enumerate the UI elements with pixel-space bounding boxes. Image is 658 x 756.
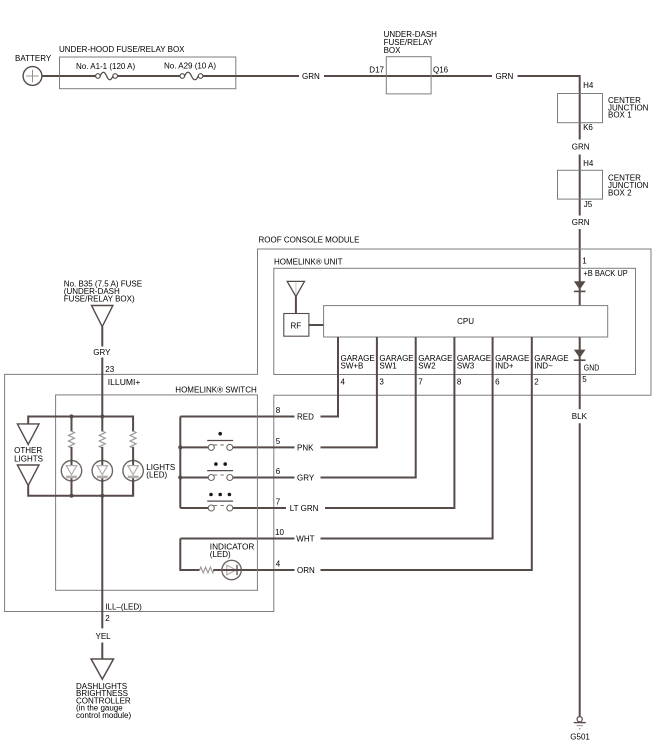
resistor R1 (lamp 1) xyxy=(69,431,75,448)
pushbutton switch S2 xyxy=(207,462,233,480)
svg-text:FUSE/RELAY BOX): FUSE/RELAY BOX) xyxy=(64,295,135,304)
top lamp bus wire xyxy=(28,417,133,432)
wire GRN between junction boxes xyxy=(572,143,590,216)
RF box xyxy=(284,314,309,337)
wire RF to CPU xyxy=(309,324,324,326)
svg-text:GRN: GRN xyxy=(572,143,590,152)
wire rail to switch S1 xyxy=(180,446,208,448)
wire RED (pin 4 to switch rail) xyxy=(180,337,338,422)
svg-text:5: 5 xyxy=(582,375,587,384)
pin 5 GND xyxy=(582,363,599,384)
pin H4 of center junction box 2 xyxy=(583,159,594,168)
pin 1 (+B BACK UP) xyxy=(582,257,628,279)
resistor R3 (lamp 3) xyxy=(130,431,136,448)
junction rail-GRY xyxy=(178,475,182,479)
pin 8 GARAGE SW3 xyxy=(457,354,491,387)
svg-text:GND: GND xyxy=(584,363,600,372)
dashlights brightness controller label xyxy=(76,682,131,720)
svg-text:8: 8 xyxy=(457,378,462,387)
wire battery to under-hood fuse/relay box xyxy=(42,75,61,77)
junction rail-PNK xyxy=(178,445,182,449)
svg-text:Q16: Q16 xyxy=(433,66,449,75)
diode D1 (+B back up) xyxy=(574,281,586,291)
switch rail wire xyxy=(179,417,181,509)
junction bus-ILLUMI xyxy=(100,414,104,418)
svg-text:(LED): (LED) xyxy=(210,550,231,559)
svg-text:GRY: GRY xyxy=(93,348,111,357)
svg-text:H4: H4 xyxy=(583,81,594,90)
svg-text:PNK: PNK xyxy=(297,443,314,452)
svg-text:BOX: BOX xyxy=(384,46,402,55)
svg-text:3: 3 xyxy=(379,378,384,387)
svg-text:+B BACK UP: +B BACK UP xyxy=(583,269,627,278)
other lights label xyxy=(14,446,43,463)
svg-text:HOMELINK® SWITCH: HOMELINK® SWITCH xyxy=(175,386,257,395)
svg-text:D17: D17 xyxy=(369,66,384,75)
svg-text:(LED): (LED) xyxy=(146,471,167,480)
svg-text:IND−: IND− xyxy=(534,362,553,371)
wire R3 to LED3 xyxy=(132,447,134,461)
svg-text:LIGHTS: LIGHTS xyxy=(14,454,43,463)
lights (LED) label xyxy=(146,463,175,480)
wire LT GRN (pin 8 to switch S3) xyxy=(233,337,454,513)
svg-text:J5: J5 xyxy=(584,200,593,209)
pin 4 GARAGE SW+B xyxy=(341,354,375,387)
wire PNK (pin 3 to switch S1) xyxy=(233,337,377,452)
wire inside under-hood box xyxy=(60,75,96,77)
center junction box 2 xyxy=(558,170,649,199)
pin 2 GARAGE IND- xyxy=(534,354,568,387)
battery xyxy=(15,54,52,85)
svg-text:GRY: GRY xyxy=(297,474,315,483)
svg-text:control module): control module) xyxy=(76,711,131,720)
wire between fuses xyxy=(118,75,181,77)
svg-text:No. A1-1 (120 A): No. A1-1 (120 A) xyxy=(76,62,135,71)
homelink unit box U1 xyxy=(274,258,636,375)
junction bus2-ILL xyxy=(100,494,104,498)
pin J5 of center junction box 2 xyxy=(584,200,593,209)
svg-text:IND+: IND+ xyxy=(495,362,514,371)
fuse No. A29 (10 A) xyxy=(164,62,216,80)
svg-text:1: 1 xyxy=(582,257,587,266)
wire GRN to center junction box 1 xyxy=(496,72,580,140)
svg-text:8: 8 xyxy=(276,406,281,415)
svg-text:UNDER-HOOD FUSE/RELAY BOX: UNDER-HOOD FUSE/RELAY BOX xyxy=(59,45,185,54)
svg-text:BOX 1: BOX 1 xyxy=(608,111,632,120)
wire rail to switch S2 xyxy=(180,477,208,479)
pin D17 xyxy=(369,66,384,75)
under-hood fuse/relay box xyxy=(59,45,236,89)
pushbutton switch S1 xyxy=(207,432,233,450)
svg-text:2: 2 xyxy=(534,378,539,387)
svg-text:SW1: SW1 xyxy=(379,362,397,371)
wire LED3 to bottom bus xyxy=(132,481,134,496)
roof console module box xyxy=(5,236,651,612)
CPU box xyxy=(324,306,608,337)
pin 3 GARAGE SW1 xyxy=(379,354,413,387)
resistor R4 (indicator series) xyxy=(200,567,214,573)
svg-text:4: 4 xyxy=(341,378,346,387)
svg-text:YEL: YEL xyxy=(96,632,112,641)
pin 7 GARAGE SW2 xyxy=(418,354,452,387)
wire GRN from under-hood box to under-dash box xyxy=(203,72,492,81)
bottom lamp bus wire xyxy=(28,481,133,496)
svg-text:6: 6 xyxy=(495,378,500,387)
svg-text:SW2: SW2 xyxy=(418,362,436,371)
wire GRY from fuse B35 xyxy=(93,327,111,432)
indicator LED xyxy=(210,543,255,580)
wire R1 to LED1 xyxy=(71,447,73,461)
svg-text:CPU: CPU xyxy=(457,317,474,326)
wire BLK to ground xyxy=(572,412,588,717)
pin 23 ILLUMI+ xyxy=(105,365,140,387)
wire ILL-(LED) down xyxy=(102,496,142,629)
svg-text:K6: K6 xyxy=(583,123,593,132)
svg-text:RED: RED xyxy=(297,413,314,422)
lamp LED3 xyxy=(123,460,143,483)
svg-text:SW+B: SW+B xyxy=(341,362,364,371)
svg-text:GRN: GRN xyxy=(496,72,514,81)
svg-text:SW3: SW3 xyxy=(457,362,475,371)
wire GRY (pin 7 to switch S2) xyxy=(233,337,416,483)
svg-text:LT GRN: LT GRN xyxy=(290,504,319,513)
svg-text:BATTERY: BATTERY xyxy=(15,54,52,63)
svg-text:ROOF CONSOLE MODULE: ROOF CONSOLE MODULE xyxy=(259,236,360,245)
wire GRN to roof console module xyxy=(572,218,590,306)
svg-text:2: 2 xyxy=(105,614,110,623)
wire rail to switch S3 xyxy=(180,507,208,509)
diode D2 (GND) xyxy=(574,337,586,409)
junction bus-lamp1 xyxy=(69,414,73,418)
fuse No. B35 label xyxy=(64,279,142,303)
svg-text:G501: G501 xyxy=(570,733,590,742)
svg-text:4: 4 xyxy=(276,560,281,569)
svg-text:No. A29 (10 A): No. A29 (10 A) xyxy=(164,62,216,71)
wire lamp1 branch xyxy=(71,417,73,432)
svg-text:RF: RF xyxy=(291,321,302,330)
wire LED1 to bottom bus xyxy=(71,481,73,496)
fuse No. A1-1 (120 A) xyxy=(76,62,135,80)
svg-text:6: 6 xyxy=(276,467,281,476)
svg-text:GRN: GRN xyxy=(572,218,590,227)
svg-text:BOX 2: BOX 2 xyxy=(608,188,632,197)
pin H4 of center junction box 1 xyxy=(583,81,594,90)
under-dash fuse/relay box xyxy=(384,30,438,94)
wire indicator LED to ORN xyxy=(240,569,243,571)
wire WHT (pin 6 to indicator) xyxy=(180,337,492,544)
wire WHT rail down to indicator xyxy=(180,539,199,571)
svg-text:H4: H4 xyxy=(583,159,594,168)
svg-text:7: 7 xyxy=(418,378,423,387)
wire resistor to indicator LED xyxy=(213,569,222,571)
other lights connector 2 xyxy=(17,465,39,486)
lamp LED1 xyxy=(61,460,81,483)
svg-text:BLK: BLK xyxy=(572,412,588,421)
pin 6 GARAGE IND+ xyxy=(495,354,529,387)
svg-text:HOMELINK® UNIT: HOMELINK® UNIT xyxy=(274,258,343,267)
wire LED2 to bottom bus xyxy=(101,481,103,496)
svg-text:5: 5 xyxy=(276,437,281,446)
center junction box 1 xyxy=(558,94,649,123)
svg-text:10: 10 xyxy=(275,528,284,537)
ground G501 xyxy=(570,717,590,742)
svg-text:ILLUMI+: ILLUMI+ xyxy=(108,378,141,387)
homelink switch box xyxy=(56,386,258,591)
svg-text:ILL–(LED): ILL–(LED) xyxy=(105,602,142,611)
pin Q16 xyxy=(433,66,449,75)
other lights connector 1 xyxy=(17,424,39,445)
antenna xyxy=(287,281,304,313)
svg-text:23: 23 xyxy=(105,365,114,374)
resistor R2 (lamp 2) xyxy=(99,431,105,448)
pushbutton switch S3 xyxy=(207,493,233,511)
svg-text:GRN: GRN xyxy=(302,72,320,81)
connector to dashlights controller xyxy=(91,659,113,679)
pin K6 of center junction box 1 xyxy=(583,123,593,132)
svg-text:ORN: ORN xyxy=(297,566,315,575)
connector from fuse B35 xyxy=(92,306,113,327)
lamp LED2 xyxy=(92,460,112,483)
svg-text:WHT: WHT xyxy=(296,535,314,544)
junction bus2-lamp1 xyxy=(69,494,73,498)
wire ORN (pin 2 to indicator LED) xyxy=(241,337,532,575)
wire YEL xyxy=(96,632,112,659)
svg-text:7: 7 xyxy=(276,498,281,507)
wire R2 to LED2 xyxy=(101,447,103,461)
